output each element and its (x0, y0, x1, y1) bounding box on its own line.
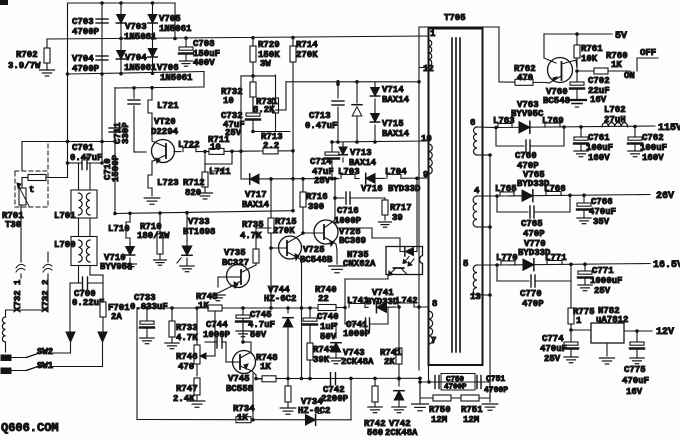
wire opto feed (338, 228, 400, 252)
svg-text:50V: 50V (250, 330, 267, 340)
capacitor C744 (203, 320, 231, 362)
svg-text:180/2W: 180/2W (137, 231, 170, 241)
capacitor C713 (305, 82, 344, 144)
resistor R714 (290, 38, 318, 213)
svg-text:L700: L700 (54, 240, 76, 250)
ground R702 (40, 70, 55, 76)
label 26V (656, 191, 674, 202)
resistor R716 (300, 179, 328, 235)
ground C702 (568, 100, 586, 107)
wire C742 up (321, 373, 351, 420)
ground V735 emitter (211, 287, 230, 301)
wire 5V rail (544, 32, 612, 36)
inductor L771 (545, 253, 567, 265)
switch SW1 (1, 361, 103, 374)
svg-text:2CK48A: 2CK48A (341, 357, 374, 367)
resistor R711 (205, 135, 234, 154)
svg-text:L703: L703 (338, 167, 360, 177)
svg-text:4700P: 4700P (484, 386, 508, 395)
svg-text:L723: L723 (157, 178, 179, 188)
svg-text:470uF: 470uF (589, 207, 616, 217)
svg-text:2.4K: 2.4K (173, 394, 195, 404)
wire R750 link (419, 382, 421, 398)
transformer T705 label (444, 13, 466, 23)
zener V734 HZ-6C2 (298, 397, 330, 425)
svg-text:C744: C744 (206, 320, 228, 330)
svg-text:HZ-6C2: HZ-6C2 (298, 406, 330, 416)
capacitor C762 (628, 127, 667, 164)
svg-text:Q606.COM: Q606.COM (1, 421, 59, 435)
capacitor C770 (497, 264, 571, 309)
switch SW2 (1, 347, 71, 361)
capacitor C702 (570, 71, 610, 105)
capacitor C733 (130, 293, 168, 338)
pin 4 (474, 186, 480, 196)
svg-text:12: 12 (423, 64, 434, 74)
resistor R713 (261, 132, 295, 154)
svg-text:12V: 12V (656, 327, 674, 338)
diode V717 BAX14 (242, 174, 270, 210)
inductor L770 (496, 253, 518, 265)
svg-text:1uF: 1uF (320, 322, 336, 332)
svg-text:1000P: 1000P (343, 329, 371, 339)
resistor R731 (253, 75, 279, 132)
svg-text:L770: L770 (496, 253, 518, 263)
potentiometer R746 (176, 308, 215, 376)
inductor L722 (174, 140, 205, 152)
svg-text:L766: L766 (544, 184, 566, 194)
resistor R743 (307, 343, 335, 380)
diode V713 BAX14 (339, 142, 377, 168)
wire pin9 rail (241, 177, 339, 181)
svg-text:C765: C765 (521, 219, 543, 229)
wire snubber jog (276, 82, 287, 110)
svg-text:R750: R750 (429, 405, 451, 415)
svg-text:3.9/7W: 3.9/7W (8, 61, 41, 71)
diode V770 BYD33D (518, 239, 551, 271)
thyristor V733 BT1698 (177, 217, 215, 266)
diode V704 (116, 51, 157, 74)
svg-text:BYD33D: BYD33D (366, 297, 399, 307)
winding 8-7 (429, 311, 433, 344)
svg-text:V706: V706 (157, 63, 179, 73)
wire R731 box bottom (251, 130, 290, 134)
svg-text:25V: 25V (544, 354, 561, 364)
wire bridge link vertical (173, 3, 177, 40)
capacitor C701 (66, 143, 104, 170)
node base drive (203, 150, 207, 154)
svg-text:2200P: 2200P (321, 394, 349, 404)
resistor R775 (568, 281, 595, 332)
polarity mark SW1 line (98, 332, 107, 367)
ground C775 (630, 358, 644, 364)
resistor R712 (183, 164, 208, 198)
svg-text:BC558: BC558 (226, 384, 253, 394)
wire C701 left leg (46, 163, 68, 178)
ground N782 (600, 358, 615, 364)
resistor R747 (173, 378, 200, 404)
svg-text:C774: C774 (542, 334, 564, 344)
svg-text:400V: 400V (193, 58, 215, 68)
wire bridge bottom rail (68, 72, 205, 76)
resistor R762 (514, 64, 536, 85)
svg-text:BC369: BC369 (339, 236, 366, 246)
svg-text:T705: T705 (444, 13, 466, 23)
ground C762 (628, 151, 642, 157)
inductor L741 (347, 296, 369, 307)
svg-text:25V: 25V (314, 176, 331, 186)
svg-text:13: 13 (470, 292, 481, 302)
resistor R729 (250, 38, 280, 75)
svg-text:V705: V705 (159, 14, 181, 24)
resistor R715 (268, 179, 297, 250)
svg-text:470P: 470P (523, 229, 545, 239)
svg-text:C701: C701 (72, 143, 94, 153)
svg-text:BAX14: BAX14 (242, 200, 270, 210)
svg-text:50V: 50V (320, 332, 337, 342)
label 5V (615, 31, 627, 42)
svg-text:26V: 26V (656, 191, 674, 202)
svg-text:T30: T30 (5, 220, 21, 230)
wire T705 outer top (419, 26, 499, 28)
transistor V760 BC548 (543, 58, 577, 107)
svg-text:C766: C766 (591, 197, 613, 207)
diode V743 2CK48A (331, 322, 374, 367)
pin 6 (470, 118, 475, 128)
diode V763 BYV95C (511, 100, 544, 133)
svg-text:BYV95C: BYV95C (511, 109, 544, 119)
svg-text:470uF: 470uF (540, 344, 567, 354)
svg-text:V716 BYD33D: V716 BYD33D (361, 184, 421, 194)
wire top AC rail (68, 1, 176, 5)
resistor hot bias (285, 386, 291, 408)
svg-text:4.7K: 4.7K (176, 333, 198, 343)
svg-text:2CK48A: 2CK48A (385, 428, 418, 437)
wire base rail (232, 149, 263, 153)
svg-text:R761: R761 (581, 44, 603, 54)
svg-text:R702: R702 (16, 50, 38, 60)
ground hot rail main (412, 378, 429, 410)
capacitor C732 (221, 97, 260, 138)
svg-text:2A: 2A (111, 312, 122, 322)
svg-text:X732 2: X732 2 (41, 280, 51, 312)
svg-text:1500P: 1500P (111, 154, 121, 182)
svg-text:1K: 1K (611, 60, 622, 70)
wire V726 emitter (336, 244, 337, 264)
pin 9 (423, 170, 428, 180)
wire hot ground rail (256, 377, 422, 381)
diode V706 (148, 49, 193, 84)
inductor L723 (148, 175, 179, 188)
watermark Q606.COM (1, 421, 59, 435)
transformer core lines (452, 38, 460, 352)
svg-text:8: 8 (432, 299, 437, 309)
svg-text:100uF: 100uF (586, 143, 613, 153)
svg-text:330P: 330P (121, 122, 131, 144)
inductor L710 (108, 213, 130, 238)
ground V710 (124, 264, 137, 269)
inductor L765 (495, 184, 517, 196)
svg-text:1000P: 1000P (203, 330, 231, 340)
svg-text:1K: 1K (198, 301, 209, 311)
svg-text:1N5061: 1N5061 (160, 73, 193, 83)
transistor V725 BC548B (271, 234, 333, 266)
svg-text:1K: 1K (260, 362, 271, 372)
svg-text:2K: 2K (384, 357, 395, 367)
svg-text:X732 1: X732 1 (13, 279, 23, 312)
wire T705 outer right (498, 27, 500, 82)
svg-text:560: 560 (367, 428, 383, 437)
svg-text:R747: R747 (176, 384, 198, 394)
svg-text:L711: L711 (209, 167, 231, 177)
svg-text:C702: C702 (588, 76, 610, 86)
svg-text:470: 470 (517, 73, 533, 83)
svg-text:4700P: 4700P (72, 27, 100, 37)
diode damper (352, 82, 362, 144)
svg-text:V703: V703 (125, 22, 147, 32)
diode V765 BYD33D (517, 170, 550, 202)
svg-text:L742: L742 (396, 296, 418, 306)
resistor R733 (169, 308, 198, 343)
svg-text:C775: C775 (624, 365, 646, 375)
capacitor C716 (334, 192, 385, 226)
svg-text:12M: 12M (431, 415, 447, 425)
connector dashed box (15, 144, 48, 207)
svg-text:R751: R751 (461, 405, 483, 415)
ground R747 (189, 401, 205, 407)
svg-text:C714: C714 (310, 157, 332, 167)
svg-text:L722: L722 (178, 140, 200, 150)
svg-text:C770: C770 (520, 289, 542, 299)
svg-text:7: 7 (431, 336, 436, 346)
wire emitter to ground (151, 188, 153, 196)
inductor L769 (542, 116, 564, 127)
transistor V745 BC558 (226, 351, 256, 395)
wire snubber rail (286, 80, 421, 84)
pin 1 (430, 29, 436, 39)
ground R742 (368, 407, 382, 413)
wire V745 collector drop (252, 374, 254, 420)
ground C751 right (482, 382, 498, 410)
svg-text:R714: R714 (296, 40, 318, 50)
wire left AC column (66, 3, 70, 163)
wire primary switch rail (115, 86, 204, 90)
wire choke to caps (79, 266, 104, 284)
diode V742 2CK48A (385, 378, 418, 437)
svg-text:R729: R729 (258, 40, 280, 50)
inductor L763 (493, 116, 515, 127)
svg-text:35V: 35V (593, 217, 610, 227)
inductor L711 (205, 151, 232, 177)
svg-text:22: 22 (318, 294, 329, 304)
wire 5V feedback (544, 34, 556, 63)
svg-text:1N5061: 1N5061 (124, 32, 157, 42)
resistor R717 (382, 198, 412, 223)
svg-text:5V: 5V (615, 31, 627, 42)
wire to V733 (186, 213, 188, 246)
wire T705 outer left (418, 27, 420, 370)
svg-text:R743: R743 (313, 345, 335, 355)
capacitor C774 (540, 330, 578, 364)
wire primary return step (203, 72, 205, 88)
ground R717 (379, 222, 392, 227)
thermistor R701 T30 (2, 178, 34, 253)
inductor L762 27uH (602, 105, 628, 127)
svg-text:V704: V704 (125, 53, 147, 63)
wire bridge column B (120, 3, 122, 74)
wire pin12 (419, 67, 429, 69)
svg-text:16V: 16V (590, 95, 607, 105)
svg-text:R717: R717 (390, 203, 412, 213)
svg-text:L769: L769 (542, 116, 564, 126)
svg-text:V733: V733 (188, 217, 210, 227)
wire 26V rail (495, 193, 650, 197)
svg-text:27uH: 27uH (604, 115, 626, 125)
capacitor C710 (103, 128, 121, 182)
wire opto LED supply (415, 177, 419, 252)
wire source line (113, 211, 293, 216)
resistor R734 (233, 404, 255, 423)
optocoupler N735 CNX62A (343, 247, 423, 276)
wire R750 row (420, 397, 490, 399)
choke L700 (54, 237, 97, 266)
resistor R702 (8, 39, 50, 71)
svg-text:5: 5 (463, 259, 468, 269)
diode V705 (148, 14, 192, 34)
capacitor C760 (496, 127, 564, 171)
svg-text:R712: R712 (183, 178, 205, 188)
wire R715 node (270, 243, 272, 308)
squiggle X732-1 (16, 264, 25, 272)
label 16.5V (653, 260, 680, 271)
svg-text:10: 10 (421, 134, 432, 144)
svg-text:C713: C713 (309, 111, 331, 121)
transistor V735 BC327 (222, 248, 256, 288)
svg-text:V735: V735 (224, 248, 246, 258)
svg-text:BAX14: BAX14 (382, 95, 410, 105)
wire C710 branch (114, 88, 116, 214)
winding 1-12 (429, 40, 432, 66)
ground C745 (236, 331, 250, 337)
capacitor C745 (236, 308, 275, 340)
wire regulation rail (137, 306, 318, 310)
svg-text:3W: 3W (260, 59, 271, 69)
svg-text:160V: 160V (588, 153, 610, 163)
resistor R751 (461, 395, 483, 425)
wire V745 emitter (252, 371, 258, 380)
resistor input series (22, 175, 46, 181)
zener V744 HZ-6C2 (264, 285, 296, 379)
wire zener link (287, 379, 289, 387)
diode V716 BYD33D (361, 173, 421, 194)
svg-text:1: 1 (430, 29, 436, 39)
svg-text:270K: 270K (296, 50, 318, 60)
capacitor C751 label (484, 375, 508, 395)
svg-text:C761: C761 (588, 133, 610, 143)
wire bridge column C (152, 3, 154, 74)
ground C733 (140, 338, 154, 344)
svg-text:VT20: VT20 (154, 117, 176, 127)
svg-text:L710: L710 (108, 224, 130, 234)
svg-text:0.47uF: 0.47uF (305, 121, 337, 131)
diode V703 (116, 15, 157, 43)
svg-text:OFF: OFF (640, 48, 656, 58)
svg-text:L762: L762 (604, 105, 626, 115)
svg-text:V715: V715 (382, 119, 404, 129)
wire C701 right leg (79, 74, 103, 190)
wire R731 box top (241, 74, 276, 78)
winding 6 (474, 127, 496, 157)
svg-text:CNX62A: CNX62A (343, 259, 376, 269)
wire V745 collector (241, 308, 251, 352)
svg-text:4: 4 (474, 186, 480, 196)
transformer T705 core box (429, 29, 483, 366)
svg-text:V713: V713 (350, 148, 372, 158)
svg-text:BC327: BC327 (222, 258, 249, 268)
svg-text:10: 10 (223, 96, 234, 106)
svg-text:1000P: 1000P (334, 216, 362, 226)
svg-text:0.033uF: 0.033uF (130, 302, 168, 312)
svg-text:4.7uF: 4.7uF (248, 320, 275, 330)
ground V742 (392, 407, 406, 413)
pin 3 (470, 292, 481, 302)
svg-text:t: t (29, 185, 34, 195)
svg-text:C771: C771 (592, 266, 614, 276)
regulator N782 uA7812 (571, 306, 628, 356)
winding 4 (473, 196, 497, 229)
resistor R742 (364, 378, 386, 437)
diode V741 BYD33D (366, 288, 399, 313)
wire C750 row (418, 380, 490, 384)
coil mains (2, 310, 48, 352)
wire VT20 emitter (151, 161, 153, 175)
winding 10-9 (429, 144, 433, 174)
capacitor C714 (310, 142, 339, 186)
capacitor C711 (113, 87, 146, 152)
label X732 2 (41, 280, 51, 312)
pin 8 (432, 299, 437, 309)
svg-text:L701: L701 (54, 211, 76, 221)
svg-text:39: 39 (392, 213, 403, 223)
transistor VT20 D2294 (151, 117, 179, 163)
svg-text:C745: C745 (250, 310, 272, 320)
inductor L721 (148, 100, 179, 113)
capacitor C765 (497, 195, 570, 239)
capacitor C700 (70, 277, 104, 332)
ground V733 (180, 266, 194, 272)
svg-text:L721: L721 (157, 101, 179, 111)
svg-text:C762: C762 (642, 133, 664, 143)
svg-text:4.7K: 4.7K (240, 231, 262, 241)
svg-text:D2294: D2294 (151, 127, 179, 137)
resistor R740 (315, 285, 345, 311)
svg-text:uA7812: uA7812 (596, 315, 628, 325)
svg-text:1: 1 (576, 316, 582, 326)
svg-text:R735: R735 (242, 220, 264, 230)
wire R731 box left (240, 76, 242, 179)
svg-text:1K: 1K (237, 413, 248, 423)
ground hot bias (280, 408, 296, 414)
wire 115V rail (494, 125, 655, 130)
squiggle X732-2 (43, 264, 52, 272)
capacitor C775 (622, 331, 649, 397)
svg-text:160V: 160V (642, 153, 664, 163)
wire switch node to V760 (499, 81, 546, 84)
ground V726 (329, 266, 346, 273)
svg-text:BC548: BC548 (543, 96, 570, 106)
wire X732 line2 (47, 252, 49, 310)
wire C733 drop (136, 308, 138, 420)
